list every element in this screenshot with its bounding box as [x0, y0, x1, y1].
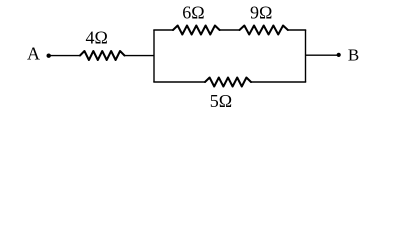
wire top rail left segment — [153, 29, 173, 31]
wire 4-ohm resistor to parallel block — [125, 55, 155, 57]
wire top rail right segment — [288, 29, 306, 31]
svg-text:5Ω: 5Ω — [210, 91, 232, 111]
wire bottom rail right segment — [251, 81, 306, 83]
resistor 9ohm — [240, 26, 288, 35]
resistor 6ohm — [173, 26, 220, 35]
svg-text:6Ω: 6Ω — [182, 3, 204, 23]
wire left vertical of parallel block — [153, 30, 155, 82]
svg-text:4Ω: 4Ω — [86, 28, 108, 48]
wire bottom rail left segment — [153, 81, 205, 83]
svg-text:B: B — [348, 46, 359, 65]
wire right vertical of parallel block — [305, 30, 307, 82]
resistor 5ohm — [205, 78, 251, 87]
wire top rail middle segment — [220, 29, 240, 31]
resistor 4ohm — [80, 51, 125, 60]
svg-text:A: A — [27, 44, 40, 64]
terminal dot A — [47, 54, 51, 58]
terminal dot B — [337, 53, 341, 57]
wire parallel block to B — [306, 54, 339, 56]
wire A to 4-ohm resistor — [49, 55, 80, 57]
svg-text:9Ω: 9Ω — [250, 3, 272, 23]
